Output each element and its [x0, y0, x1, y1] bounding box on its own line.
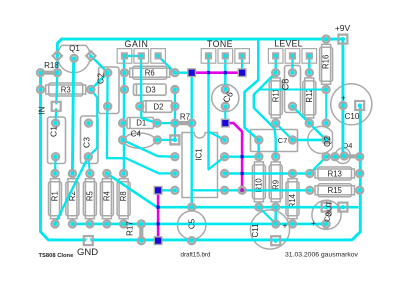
svg-text:C1: C1	[49, 126, 59, 137]
svg-text:R9: R9	[271, 180, 280, 190]
svg-text:R4: R4	[103, 191, 112, 202]
svg-text:R3: R3	[61, 85, 71, 94]
svg-text:C3: C3	[82, 137, 92, 148]
svg-text:R8: R8	[119, 191, 128, 201]
svg-text:C7: C7	[278, 136, 288, 145]
svg-text:R15: R15	[328, 186, 343, 195]
svg-text:R17: R17	[126, 221, 135, 236]
svg-text:+: +	[311, 219, 316, 228]
svg-text:Q2: Q2	[323, 136, 332, 147]
svg-text:C2: C2	[96, 73, 106, 84]
svg-text:R5: R5	[86, 191, 95, 202]
svg-text:R11: R11	[271, 89, 280, 103]
svg-text:IC1: IC1	[195, 148, 204, 161]
svg-text:R16: R16	[322, 55, 331, 69]
svg-text:Q1: Q1	[69, 44, 80, 53]
svg-text:IN: IN	[38, 106, 47, 114]
svg-text:+: +	[283, 222, 288, 231]
svg-text:31.03.2006 gausmarkov: 31.03.2006 gausmarkov	[285, 252, 359, 259]
svg-text:TONE: TONE	[207, 39, 233, 49]
svg-text:C8: C8	[281, 79, 291, 91]
svg-text:C11: C11	[251, 223, 260, 238]
svg-text:R1: R1	[51, 191, 60, 201]
svg-text:GND: GND	[77, 247, 98, 258]
svg-text:R6: R6	[145, 69, 155, 78]
svg-text:+: +	[341, 94, 346, 103]
svg-text:R18: R18	[44, 61, 59, 70]
svg-text:D3: D3	[146, 85, 156, 94]
svg-text:C5: C5	[188, 218, 197, 229]
svg-text:TS808 Clone: TS808 Clone	[39, 253, 75, 259]
svg-text:D2: D2	[154, 102, 164, 111]
svg-text:C4: C4	[131, 129, 142, 138]
svg-text:draft15.brd: draft15.brd	[181, 252, 211, 259]
svg-text:R7: R7	[180, 113, 191, 122]
svg-text:R13: R13	[328, 169, 342, 178]
svg-text:LEVEL: LEVEL	[274, 39, 302, 49]
svg-text:C9: C9	[322, 212, 333, 223]
svg-text:+9V: +9V	[335, 23, 351, 33]
svg-text:GAIN: GAIN	[125, 39, 149, 49]
svg-text:C10: C10	[345, 112, 360, 121]
